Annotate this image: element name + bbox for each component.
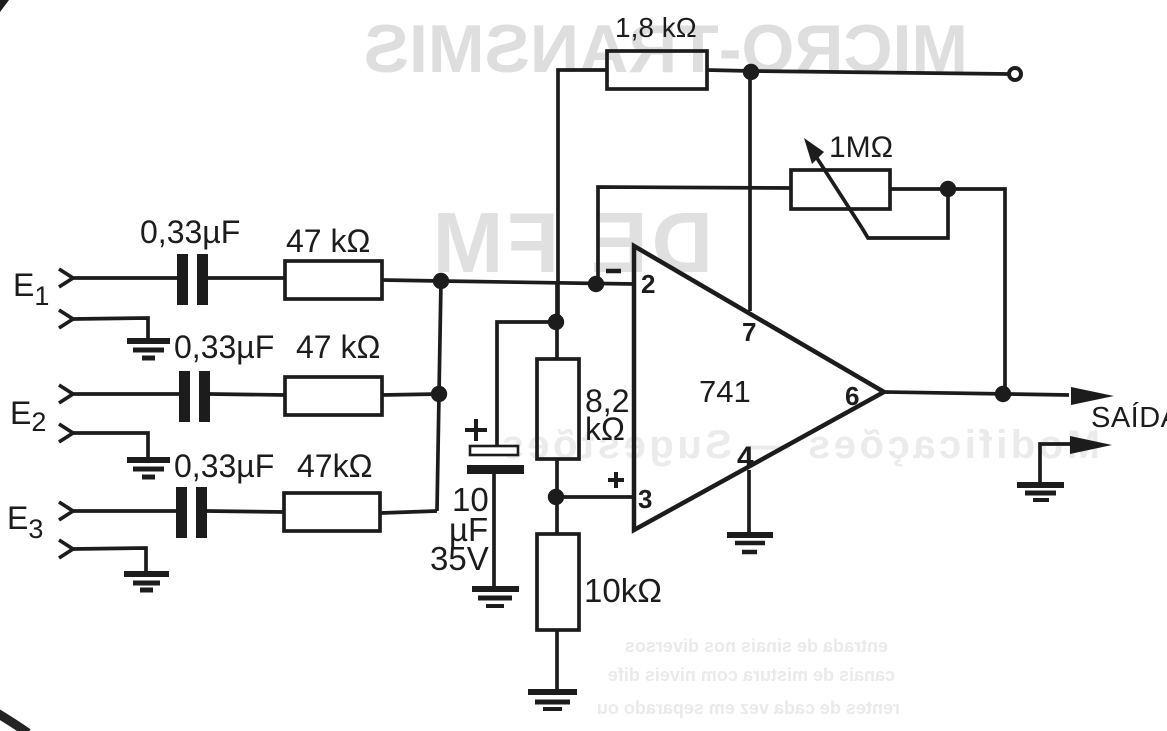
node V+ junction xyxy=(743,64,759,80)
svg-text:47 kΩ: 47 kΩ xyxy=(296,329,380,365)
input E3 xyxy=(7,500,176,544)
wire pot right lead to output xyxy=(890,189,1005,394)
svg-text:entrada de sinais nos diversos: entrada de sinais nos diversos xyxy=(625,636,888,656)
page corner mark top-left xyxy=(0,0,9,12)
wire summing bus xyxy=(437,281,441,511)
resistor R1 47kΩ xyxy=(285,223,382,299)
input E2 xyxy=(10,385,179,437)
wire C1 to R1 xyxy=(208,276,285,280)
resistor R6 10kΩ xyxy=(537,497,662,692)
ground at E2 xyxy=(127,460,170,477)
wire C3 to R3 xyxy=(207,511,284,512)
ground at 10uF xyxy=(472,589,519,606)
ground at E1 xyxy=(127,341,170,358)
page corner frame bottom-left xyxy=(0,713,28,731)
ground at pin 4 xyxy=(727,535,773,552)
svg-text:2: 2 xyxy=(641,269,655,299)
ground at E3 xyxy=(124,574,169,590)
op-amp U1 741 xyxy=(634,246,884,530)
svg-text:0,33µF: 0,33µF xyxy=(140,214,240,250)
pin 3 non-inverting input xyxy=(608,472,652,514)
resistor R3 47kΩ xyxy=(284,448,380,531)
svg-text:7: 7 xyxy=(742,317,756,347)
ground at output return xyxy=(1017,485,1064,500)
svg-text:35V: 35V xyxy=(430,540,489,577)
svg-text:10kΩ: 10kΩ xyxy=(584,572,662,609)
wire 1.8k left lead down to bias node xyxy=(558,70,607,322)
capacitor C2 0.33uF xyxy=(174,329,274,422)
ground at 10k xyxy=(528,692,577,709)
svg-text:SAÍDA: SAÍDA xyxy=(1091,401,1167,434)
capacitor C1 0.33uF xyxy=(140,214,240,305)
input E1 ground branch xyxy=(59,310,148,341)
pin 2 inverting input xyxy=(606,269,655,299)
capacitor C3 0.33uF xyxy=(174,448,274,538)
svg-text:DE FM: DE FM xyxy=(429,196,713,291)
node E1 junction xyxy=(433,273,449,289)
svg-text:4: 4 xyxy=(737,441,754,474)
wire R1 to bus xyxy=(382,280,441,281)
svg-text:47 kΩ: 47 kΩ xyxy=(286,223,370,259)
input E2 ground branch xyxy=(59,424,148,460)
wire R2 to bus xyxy=(382,394,439,395)
svg-text:kΩ: kΩ xyxy=(585,411,625,447)
terminal +V xyxy=(1009,68,1021,80)
wire 1.8k right lead and +V rail xyxy=(707,70,1009,74)
svg-text:741: 741 xyxy=(699,374,751,409)
svg-text:1MΩ: 1MΩ xyxy=(829,131,893,164)
node bias top junction xyxy=(548,314,564,330)
node pin2 junction xyxy=(588,276,604,292)
resistor R4 1.8kΩ xyxy=(607,12,707,89)
input E1 xyxy=(13,267,177,311)
output arrow SAÍDA xyxy=(1071,387,1167,434)
potentiometer P1 1MΩ xyxy=(791,131,893,228)
wire C2 to R2 xyxy=(210,394,285,395)
node output junction xyxy=(995,386,1011,402)
svg-text:47kΩ: 47kΩ xyxy=(297,448,373,484)
svg-text:0,33µF: 0,33µF xyxy=(174,329,274,365)
ground return arrow xyxy=(1040,436,1112,483)
svg-text:canais de mistura com niveis d: canais de mistura com niveis dife xyxy=(608,665,895,685)
wire pot left lead to pin2 node xyxy=(598,187,791,284)
node E2 junction xyxy=(431,386,447,402)
capacitor C4 10uF 35V electrolytic xyxy=(430,322,555,589)
svg-text:rentes de cada vez em separado: rentes de cada vez em separado ou xyxy=(597,698,900,718)
node pin3 junction xyxy=(548,489,564,505)
resistor R5 8.2kΩ xyxy=(537,284,629,497)
wire pin3 xyxy=(556,495,634,499)
svg-text:1,8 kΩ: 1,8 kΩ xyxy=(615,12,697,43)
wire pot wiper loop xyxy=(862,189,948,238)
pin 6 output wire xyxy=(845,381,1069,411)
pin 4 ground wire xyxy=(737,441,754,534)
wire R3 to bus xyxy=(380,511,437,513)
svg-text:6: 6 xyxy=(845,381,859,411)
wire pin2 node horizontal xyxy=(441,281,634,284)
pin 7 supply wire xyxy=(742,72,756,347)
input E3 ground branch xyxy=(59,540,146,573)
svg-text:3: 3 xyxy=(638,484,652,514)
node pot right junction xyxy=(940,181,956,197)
resistor R2 47kΩ xyxy=(285,329,382,415)
svg-text:0,33µF: 0,33µF xyxy=(174,448,274,484)
bleed-through background text (decorative) xyxy=(364,11,1100,718)
